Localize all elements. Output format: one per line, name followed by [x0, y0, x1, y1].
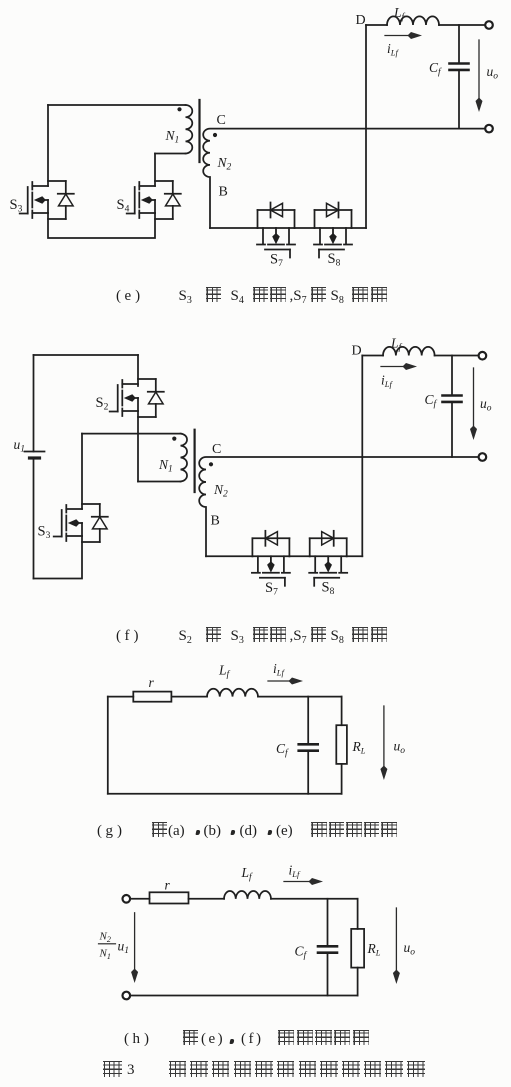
- svg-text:D: D: [356, 13, 366, 28]
- capacitor Cf (f): [451, 356, 453, 396]
- wire: D riser (node D down to S8): [365, 25, 367, 228]
- svg-text:uo: uo: [480, 396, 492, 414]
- svg-text:S7: S7: [270, 252, 283, 270]
- wire: S2 source to N1 bottom lead (crosses N1 top wire): [137, 411, 139, 482]
- wire: Lf to terminal (f): [435, 355, 479, 357]
- transformer core (f): [194, 430, 196, 492]
- polarity dot N1: [177, 107, 181, 111]
- wire: S3 drain riser: [81, 434, 83, 509]
- svg-text:iLf: iLf: [381, 373, 393, 390]
- arrow uo (f): [473, 368, 475, 428]
- arrow uo: [478, 40, 480, 100]
- svg-text:S8: S8: [328, 251, 341, 269]
- transformer core: [198, 100, 200, 162]
- polarity dot N1 (f): [172, 437, 176, 441]
- wire: S2 drain riser: [137, 355, 139, 386]
- caption (h): [0, 1030, 511, 1052]
- transistor S7f (MOSFET with body diode): [252, 531, 290, 598]
- svg-text:B: B: [219, 185, 228, 200]
- wire: S8 to D riser: [352, 227, 367, 229]
- svg-text:S3: S3: [38, 524, 51, 542]
- wire: battery+ top rail to S2 drain: [34, 354, 139, 356]
- input terminal top (h): [123, 895, 131, 903]
- wire: B rail to S7 (f): [206, 555, 252, 557]
- wire: Lf to RL corner (g): [258, 696, 342, 698]
- figure caption 图3: [0, 1061, 511, 1083]
- svg-text:iLf: iLf: [273, 661, 285, 678]
- secondary winding N2 (f) with C lead and B riser: [199, 457, 478, 556]
- svg-text:uo: uo: [487, 64, 499, 82]
- output terminal top (f): [479, 352, 487, 360]
- arrow uo (h): [395, 908, 397, 972]
- resistor RL (g): [341, 697, 343, 726]
- output terminal bottom: [485, 125, 493, 133]
- wire: Lf to output terminal: [439, 24, 485, 26]
- svg-text:Cf: Cf: [295, 944, 308, 962]
- svg-text:S8: S8: [322, 580, 335, 598]
- svg-text:iLf: iLf: [289, 863, 301, 880]
- wire: D to inductor Lf: [366, 24, 387, 26]
- svg-text:N1: N1: [99, 948, 111, 962]
- wire: S7 to S8: [295, 227, 315, 229]
- wire: bottom wire (h): [130, 995, 357, 997]
- svg-text:N2: N2: [213, 482, 228, 500]
- svg-text:B: B: [211, 514, 220, 529]
- wire: S7 to S8 (f): [289, 555, 309, 557]
- secondary winding N2 with C lead and B riser: [203, 129, 485, 228]
- wire: left side of loop (g): [107, 697, 109, 794]
- wire: r to Lf (h): [189, 898, 225, 900]
- wire: B rail to S7: [210, 227, 258, 229]
- svg-text:Lf: Lf: [218, 663, 231, 681]
- wire: top rail to transformer N1 top: [48, 104, 186, 106]
- svg-text:uo: uo: [394, 739, 406, 757]
- svg-text:Lf: Lf: [390, 336, 403, 354]
- output terminal bottom (f): [479, 453, 487, 461]
- wire: N1 bottom lead: [155, 153, 186, 155]
- arrow iLf (h): [284, 881, 311, 883]
- caption (g): [0, 822, 511, 844]
- wire: S3 drain riser to top rail: [47, 105, 49, 186]
- transistor S2 (MOSFET with body diode): [96, 379, 164, 417]
- output terminal top: [485, 21, 493, 29]
- svg-text:RL: RL: [367, 941, 381, 958]
- svg-text:Cf: Cf: [429, 60, 442, 78]
- polarity dot N2 (f): [209, 462, 213, 466]
- svg-text:Lf: Lf: [393, 5, 406, 23]
- primary winding N1 (f): [181, 434, 188, 482]
- svg-text:u1: u1: [118, 939, 130, 957]
- resistor RL (h): [357, 899, 359, 929]
- svg-text:C: C: [217, 113, 226, 128]
- caption (e): [0, 287, 511, 309]
- svg-text:S2: S2: [96, 395, 109, 413]
- svg-text:N2: N2: [217, 155, 232, 173]
- svg-text:RL: RL: [352, 739, 366, 756]
- svg-text:r: r: [149, 675, 155, 690]
- resistor r (g): [133, 692, 171, 702]
- inductor Lf (f): [383, 347, 435, 356]
- svg-text:iLf: iLf: [387, 41, 399, 58]
- wire: N1 top lead to S3 drain riser: [82, 433, 181, 435]
- svg-text:N2: N2: [99, 931, 111, 945]
- inductor Lf (h): [224, 891, 271, 899]
- wire: Lf to RL corner (h): [271, 898, 358, 900]
- wire: D riser (f): [361, 356, 363, 557]
- capacitor Cf: [458, 25, 460, 64]
- battery u1: [33, 355, 35, 452]
- transistor S3 (MOSFET with body diode): [10, 181, 74, 219]
- svg-text:N1: N1: [165, 128, 180, 146]
- inductor Lf: [387, 16, 439, 25]
- svg-text:C: C: [212, 442, 221, 457]
- transistor S8 (MOSFET with body diode): [314, 203, 352, 269]
- transistor S4 (MOSFET with body diode): [117, 181, 181, 219]
- polarity dot N2: [213, 133, 217, 137]
- svg-text:Cf: Cf: [425, 392, 438, 410]
- inductor Lf (g): [207, 689, 258, 697]
- svg-text:Cf: Cf: [276, 741, 289, 759]
- wire: terminal to r (h): [130, 898, 149, 900]
- transistor S3f (MOSFET with body diode): [38, 504, 108, 542]
- svg-text:S3: S3: [10, 197, 23, 215]
- svg-text:u1: u1: [14, 437, 26, 455]
- wire: S4 drain riser: [154, 154, 156, 187]
- wire: top wire to resistor r (g): [108, 696, 134, 698]
- arrow u1 polarity (h): [134, 913, 136, 971]
- wire: r to Lf (g): [171, 696, 207, 698]
- input terminal bottom (h): [123, 992, 131, 1000]
- svg-text:S7: S7: [265, 580, 278, 598]
- wire: bottom rail S3 source to S4 source: [48, 213, 155, 238]
- wire: S3 source to bottom rail to battery-: [34, 536, 83, 579]
- wire: bottom wire (g): [108, 793, 342, 795]
- svg-text:uo: uo: [404, 940, 416, 958]
- transistor S7 (MOSFET with body diode): [257, 203, 295, 270]
- svg-text:D: D: [352, 344, 362, 359]
- primary winding N1: [186, 105, 193, 153]
- arrow uo (g): [383, 706, 385, 768]
- capacitor Cf (g): [307, 697, 309, 745]
- wire: D to Lf (f): [362, 355, 383, 357]
- resistor r (h): [150, 892, 189, 903]
- svg-text:Lf: Lf: [241, 865, 254, 883]
- svg-text:N1: N1: [158, 457, 173, 475]
- arrow iLf: [385, 35, 410, 37]
- capacitor Cf (h): [327, 899, 329, 947]
- caption (f): [0, 627, 511, 649]
- arrow iLf (f): [381, 366, 405, 368]
- wire: N1 bottom lead to S2 source: [138, 481, 181, 483]
- wire: S8 to D riser (f): [347, 555, 363, 557]
- transistor S8f (MOSFET with body diode): [309, 531, 347, 597]
- svg-text:r: r: [165, 878, 171, 893]
- arrow iLf (g): [268, 680, 291, 682]
- svg-text:S4: S4: [117, 197, 130, 215]
